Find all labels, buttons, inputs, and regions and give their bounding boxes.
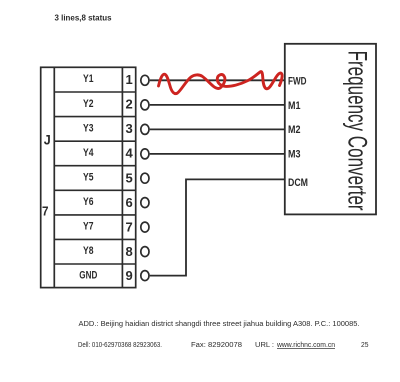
label Y4 [83,147,94,159]
pin label M2 [288,124,301,136]
pin label DCM [288,177,308,189]
svg-text:Y5: Y5 [83,172,94,184]
svg-text:GND: GND [79,269,97,281]
label GND [79,269,97,281]
svg-text:7: 7 [42,205,49,219]
svg-text:Fax: 82920078: Fax: 82920078 [191,342,242,349]
svg-text:Y1: Y1 [83,73,94,85]
row divider 7/8 [54,238,135,240]
row divider 6/7 [54,214,135,216]
pin number 7 [125,219,132,234]
svg-text:M2: M2 [288,124,301,136]
svg-text:8: 8 [125,244,132,259]
pin number 9 [125,268,132,283]
terminal circle pin 4 [141,149,149,159]
terminal circle pin 7 [141,222,149,232]
svg-text:Y7: Y7 [83,221,94,233]
pin number 2 [125,97,132,112]
connector designator 7 [42,205,49,219]
label Y7 [83,221,94,233]
svg-text:3: 3 [125,121,132,136]
svg-text:7: 7 [125,219,132,234]
svg-text:Y4: Y4 [83,147,94,159]
footer address line [79,321,360,328]
footer page number 25 [361,342,369,349]
wire pin9 to DCM [150,179,285,275]
pin number 5 [125,170,132,185]
pin label FWD [288,75,307,87]
svg-text:9: 9 [125,268,132,283]
row divider 5/6 [54,189,135,191]
svg-text:J: J [44,132,51,148]
footer URL label [255,342,274,349]
wire pin3 to M2 [150,128,285,130]
footer fax segment [191,342,242,349]
terminal circle pin 6 [141,198,149,208]
terminal circle pin 9 [141,271,149,281]
row divider 4/5 [54,165,135,167]
svg-text:6: 6 [125,195,132,210]
label Y2 [83,98,94,110]
svg-text:1: 1 [125,72,132,87]
pin number 6 [125,195,132,210]
svg-text:Dell: 010-62970368 82923063.: Dell: 010-62970368 82923063. [78,342,162,349]
svg-text:FWD: FWD [288,75,307,87]
svg-text:ADD.: Beijing haidian distric: ADD.: Beijing haidian district shangdi t… [79,321,360,328]
label Y3 [83,122,94,134]
svg-text:25: 25 [361,342,369,349]
label Y6 [83,196,94,208]
connector designator J [44,132,51,148]
connector J7 pin-number column divider [121,67,123,287]
terminal circle pin 8 [141,247,149,257]
svg-text:Y6: Y6 [83,196,94,208]
connector J7 left column divider [53,67,55,287]
label Y1 [83,73,94,85]
pin number 8 [125,244,132,259]
svg-text:4: 4 [125,146,133,161]
row divider 3/4 [54,140,135,142]
wire pin1 to FWD [150,79,285,81]
wire pin2 to M1 [150,104,285,106]
svg-text:3 lines,8 status: 3 lines,8 status [55,13,112,23]
pin number 1 [125,72,132,87]
wire pin4 to M3 [150,153,285,155]
svg-text:M1: M1 [288,100,301,112]
pin number 4 [125,146,133,161]
footer phone segment [78,342,162,349]
label Y8 [83,245,94,257]
row divider 2/3 [54,116,135,118]
svg-text:M3: M3 [288,149,301,161]
pin number 3 [125,121,132,136]
svg-text:5: 5 [125,170,132,185]
terminal circle pin 1 [141,75,149,85]
pin label M3 [288,149,301,161]
footer URL link [276,342,335,349]
title text "3 lines,8 status" [55,13,112,23]
svg-text:Y3: Y3 [83,122,94,134]
label Y5 [83,172,94,184]
rotated label Frequency Converter [343,51,373,211]
terminal circle pin 5 [141,173,149,183]
svg-text:Y8: Y8 [83,245,94,257]
svg-text:URL :: URL : [255,342,274,349]
pin label M1 [288,100,301,112]
frequency converter box U1 [285,44,376,215]
svg-text:Frequency Converter: Frequency Converter [343,51,373,211]
svg-text:www.richnc.com.cn: www.richnc.com.cn [276,342,335,349]
terminal circle pin 3 [141,124,149,134]
row divider 8/9 [54,263,135,265]
terminal circle pin 2 [141,100,149,110]
svg-text:2: 2 [125,97,132,112]
red scribble annotation over FWD wire [159,72,283,94]
row divider 1/2 [54,91,135,93]
svg-text:Y2: Y2 [83,98,94,110]
svg-text:DCM: DCM [288,177,308,189]
connector J7 outer outline [41,67,136,287]
